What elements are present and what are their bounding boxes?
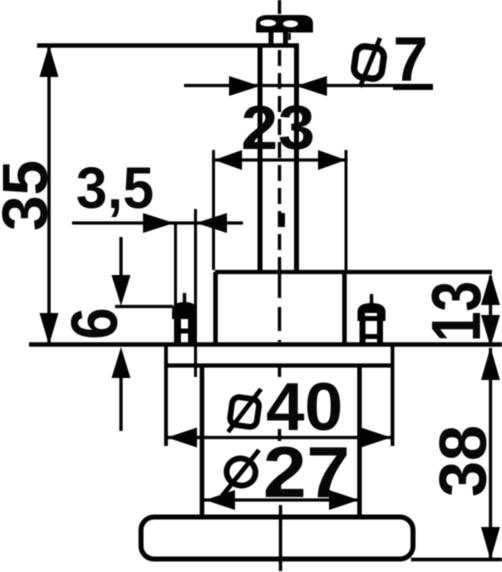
dimension 38 line <box>489 348 492 559</box>
arrow right 27 <box>329 490 359 510</box>
svg-text:38: 38 <box>426 425 501 497</box>
phi symbol of 7 <box>353 38 385 87</box>
extension line 3,5 right <box>194 209 197 377</box>
svg-text:35: 35 <box>0 160 61 231</box>
arrow right 40 <box>361 428 391 448</box>
body right edge <box>357 366 362 516</box>
svg-text:6: 6 <box>57 308 131 340</box>
dimension 35 vertical line <box>47 47 50 344</box>
dimension 6 upper line <box>119 237 122 276</box>
dimension phi7 line <box>184 84 433 87</box>
left pin center mark <box>183 293 187 305</box>
dimension 3,5 line <box>72 221 243 224</box>
arrow left 23 <box>214 150 242 170</box>
extension line right 23 <box>345 150 348 270</box>
arrow up 38 <box>481 347 500 380</box>
body left edge <box>200 366 205 516</box>
right pin center mark <box>370 294 374 306</box>
flange top line full width <box>29 342 502 347</box>
dimension 13 line <box>489 276 492 345</box>
right pin body <box>360 320 366 345</box>
shaft diameter 7 left edge <box>258 46 263 271</box>
block left edge <box>213 272 218 344</box>
left pin head <box>173 303 196 318</box>
arrow toward right 3,5 <box>143 213 174 233</box>
dimension 6 lower line <box>119 375 122 431</box>
block right edge <box>342 272 347 344</box>
arrow down 6 <box>112 275 131 306</box>
wire top extension line y45 <box>37 43 299 48</box>
dimension 40 line <box>166 436 392 439</box>
screw head <box>256 15 313 33</box>
extension line bottom right <box>411 558 502 562</box>
phi symbol of 40 <box>228 389 261 432</box>
flange bottom line <box>165 363 394 367</box>
right pin head <box>359 304 385 320</box>
arrow up 35 <box>40 45 59 77</box>
underline of 7 <box>393 85 433 90</box>
short reference line y306 <box>115 305 173 308</box>
flange left edge <box>164 345 168 446</box>
arrow left 40 <box>167 428 197 448</box>
extension line 3,5 left <box>174 224 177 345</box>
arrow down 38 <box>481 527 500 560</box>
arrow left at shaft right <box>296 76 327 96</box>
left pin slot bar <box>180 329 189 334</box>
arrow right at shaft left <box>229 76 260 96</box>
arrow up 6 <box>112 347 131 378</box>
svg-text:23: 23 <box>241 94 315 163</box>
svg-text:13: 13 <box>417 281 495 342</box>
extension line left 23 <box>212 150 215 270</box>
right pin slot bar <box>365 334 378 339</box>
screw neck <box>269 31 274 47</box>
screw shank hidden dash <box>280 213 285 227</box>
arrow left 27 <box>205 490 235 510</box>
center line <box>280 0 281 571</box>
arrow down 13 <box>481 315 500 347</box>
arrow toward left 3,5 <box>196 213 227 233</box>
phi symbol of 27 <box>222 450 259 496</box>
dimension 27 line <box>204 498 360 501</box>
shaft right edge <box>294 46 299 271</box>
flange right edge <box>391 345 395 446</box>
svg-text:7: 7 <box>393 25 428 95</box>
dimension 23 line <box>214 158 346 161</box>
svg-text:3,5: 3,5 <box>76 156 154 221</box>
arrow up 13 <box>481 273 500 305</box>
arrow right 23 <box>318 150 346 170</box>
base disk <box>141 517 413 559</box>
left pin body <box>175 318 181 345</box>
block 23 top line + 13 extension <box>215 270 492 274</box>
arrow down 35 <box>40 313 59 345</box>
